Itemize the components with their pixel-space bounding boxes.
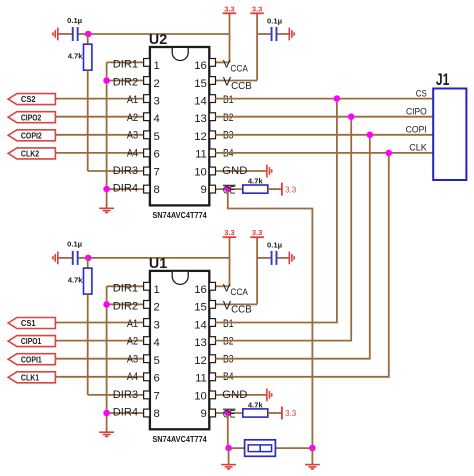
resistor R4 4.7k	[243, 409, 268, 417]
wire CLK2 to A4	[56, 152, 144, 154]
wire to pin 8 DIR4	[107, 412, 144, 414]
svg-text:CIPO1: CIPO1	[21, 336, 42, 346]
svg-text:6: 6	[154, 373, 160, 385]
pin 4 of U2	[144, 113, 150, 121]
ground DIR bus	[99, 432, 114, 436]
svg-text:OE: OE	[223, 409, 235, 421]
svg-text:3.3: 3.3	[224, 228, 234, 237]
wire to pin 2 DIR2	[107, 303, 144, 305]
svg-text:B1: B1	[223, 318, 234, 330]
ground jumper left	[221, 465, 236, 469]
junction bus B4	[386, 150, 393, 157]
junction DIR4	[103, 186, 110, 193]
wire CS1 to A1	[56, 322, 144, 324]
pin 7 of U2	[144, 167, 150, 175]
wire R down to DIR3 row	[87, 70, 89, 171]
svg-text:COPI2: COPI2	[21, 130, 42, 140]
wire U1 B2 up to bus	[215, 117, 351, 341]
supply 3.3V VCCB	[250, 228, 264, 237]
svg-text:4: 4	[154, 337, 160, 349]
wire junction to VCCA rail	[88, 33, 229, 35]
pin 10 of U2	[209, 167, 215, 175]
resistor R1 4.7k	[84, 44, 92, 70]
pin 6 of U2	[144, 149, 150, 157]
capacitor C3 0.1u	[72, 251, 79, 265]
svg-text:A3: A3	[127, 130, 138, 142]
resistor R3 4.7k	[84, 268, 92, 294]
net flag CS2	[8, 94, 55, 105]
capacitor C1 0.1u	[72, 27, 79, 41]
svg-text:9: 9	[201, 408, 207, 420]
wire pin10 GND	[215, 170, 267, 172]
pin 9 of U2	[209, 185, 215, 193]
net flag CLK2	[8, 148, 55, 159]
svg-text:3: 3	[154, 96, 160, 108]
svg-text:CS1: CS1	[21, 318, 36, 328]
svg-text:8: 8	[154, 408, 160, 420]
svg-text:DIR2: DIR2	[113, 300, 138, 312]
junction OE	[225, 186, 232, 193]
supply 3.3V OE pullup	[282, 407, 297, 420]
pin 16 of U2	[209, 59, 215, 67]
svg-text:J1: J1	[436, 70, 450, 89]
svg-text:GND: GND	[222, 389, 247, 401]
wire CIPO2 to A2	[56, 116, 144, 118]
svg-text:1: 1	[154, 60, 160, 72]
svg-text:DIR4: DIR4	[113, 407, 138, 419]
wire to ground left	[228, 448, 230, 465]
wire CS2 to A1	[56, 98, 144, 100]
wire B4 bus to J1	[215, 152, 433, 154]
svg-text:3.3: 3.3	[252, 228, 262, 237]
pin 9 of U1	[209, 409, 215, 417]
wire pin16 VCCA	[215, 285, 229, 287]
pin 7 of U1	[144, 391, 150, 399]
ground right of C2	[289, 28, 294, 41]
wire rail to C right	[257, 33, 271, 35]
wire C to ground	[277, 33, 289, 35]
wire pin10 GND	[215, 394, 267, 396]
jumper SJ1 solder bridge	[245, 440, 276, 457]
svg-text:11: 11	[195, 149, 207, 161]
supply 3.3V VCCA	[223, 228, 237, 237]
svg-text:COPI: COPI	[406, 124, 427, 135]
wire junction to VCCA rail	[88, 257, 229, 259]
svg-text:7: 7	[154, 390, 160, 402]
svg-text:14: 14	[194, 319, 207, 331]
net flag COPI2	[8, 130, 55, 141]
wire COPI1 to A3	[56, 358, 144, 360]
svg-text:5: 5	[154, 131, 160, 143]
pin 15 of U1	[209, 301, 215, 309]
svg-text:4.7k: 4.7k	[248, 400, 264, 409]
net flag CIPO2	[8, 112, 55, 123]
wire U1 B4 up to bus	[215, 153, 388, 377]
junction bus B2	[348, 113, 355, 120]
resistor R2 4.7k	[243, 185, 268, 193]
svg-text:15: 15	[194, 78, 207, 90]
svg-text:CLK: CLK	[409, 142, 427, 153]
junction bus B3	[367, 132, 374, 139]
svg-text:10: 10	[194, 166, 207, 178]
wire junction to R	[87, 34, 89, 44]
wire to pin 8 DIR4	[107, 188, 144, 190]
svg-text:A1: A1	[127, 94, 138, 106]
pin 13 of U2	[209, 113, 215, 121]
pin 12 of U2	[209, 131, 215, 139]
wire DIR bus vertical	[106, 62, 108, 208]
junction DIR2	[103, 301, 110, 308]
svg-text:DIR3: DIR3	[113, 389, 138, 401]
svg-text:DIR4: DIR4	[113, 183, 138, 195]
svg-text:3.3: 3.3	[224, 4, 234, 13]
svg-text:DIR3: DIR3	[113, 165, 138, 177]
svg-text:U2: U2	[149, 32, 167, 48]
pin 3 of U2	[144, 95, 150, 103]
wire to pin 7 DIR3	[88, 170, 144, 172]
IC U2 body (SN74AVC4T774)	[150, 47, 209, 205]
ground DIR bus	[99, 208, 114, 212]
wire CLK1 to A4	[56, 376, 144, 378]
capacitor C2 0.1u	[271, 27, 278, 41]
wire R down to DIR3 row	[87, 294, 89, 395]
pin 10 of U1	[209, 391, 215, 399]
wire U1 B3 up to bus	[215, 135, 369, 359]
wire R to 3.3	[268, 188, 282, 190]
svg-text:13: 13	[194, 337, 207, 349]
IC U1 body (SN74AVC4T774)	[150, 271, 209, 429]
supply 3.3V VCCA	[223, 4, 237, 13]
svg-text:CLK1: CLK1	[21, 372, 39, 382]
pin 6 of U1	[144, 373, 150, 381]
wire pin9 OE to R	[215, 412, 242, 414]
pin 4 of U1	[144, 337, 150, 345]
junction jumper right	[309, 445, 316, 452]
supply 3.3V OE pullup	[282, 183, 297, 196]
svg-text:12: 12	[194, 355, 207, 367]
svg-text:U1: U1	[149, 256, 167, 272]
svg-text:13: 13	[194, 113, 207, 125]
svg-text:CLK2: CLK2	[21, 149, 39, 159]
svg-text:A4: A4	[127, 147, 138, 159]
junction DIR4	[103, 410, 110, 417]
pin 11 of U1	[209, 373, 215, 381]
ground at GND pin	[267, 389, 272, 402]
wire to pin 1 DIR1	[107, 285, 144, 287]
svg-text:CIPO: CIPO	[406, 106, 427, 117]
net flag CS1	[8, 318, 55, 329]
svg-text:DIR2: DIR2	[113, 76, 138, 88]
svg-text:0.1µ: 0.1µ	[267, 17, 282, 26]
pin 5 of U1	[144, 355, 150, 363]
wire pin9 OE to R	[215, 188, 242, 190]
svg-text:9: 9	[201, 184, 207, 196]
svg-text:10: 10	[194, 390, 207, 402]
svg-text:A2: A2	[127, 112, 138, 124]
svg-text:0.1µ: 0.1µ	[67, 240, 82, 249]
wire to pin 1 DIR1	[107, 61, 144, 63]
junction jumper left	[225, 445, 232, 452]
wire to pin 7 DIR3	[88, 394, 144, 396]
svg-text:B2: B2	[223, 336, 234, 348]
wire VCCA rail vertical	[229, 13, 231, 62]
svg-text:4.7k: 4.7k	[248, 176, 264, 185]
svg-text:A4: A4	[127, 371, 138, 383]
svg-text:2: 2	[154, 302, 160, 314]
wire VCCA rail vertical	[229, 237, 231, 286]
pin 12 of U1	[209, 355, 215, 363]
svg-text:B1: B1	[223, 94, 234, 106]
wire rail to C right	[257, 257, 271, 259]
pin label OE (active low)	[223, 409, 236, 421]
wire dot to jumper left	[229, 447, 245, 449]
wire junction to R	[87, 258, 89, 268]
net flag CLK1	[8, 372, 55, 383]
svg-text:3.3: 3.3	[285, 409, 297, 418]
junction cap/resistor	[85, 31, 92, 38]
svg-text:7: 7	[154, 166, 160, 178]
svg-text:4: 4	[154, 113, 160, 125]
svg-text:14: 14	[194, 96, 207, 108]
wire to pin 2 DIR2	[107, 80, 144, 82]
wire VCCB rail vertical	[256, 237, 258, 304]
wire C to junction	[78, 257, 88, 259]
svg-text:SN74AVC4T774: SN74AVC4T774	[152, 211, 207, 220]
svg-text:3: 3	[154, 319, 160, 331]
ground right of C4	[289, 252, 294, 265]
pin 1 of U2	[144, 59, 150, 67]
wire VCCB rail vertical	[256, 13, 258, 80]
svg-text:0.1µ: 0.1µ	[67, 16, 82, 25]
pin 13 of U1	[209, 337, 215, 345]
wire COPI2 to A3	[56, 134, 144, 136]
svg-text:DIR1: DIR1	[113, 59, 138, 71]
wire B1 bus to J1	[215, 98, 433, 100]
wire gnd to C left	[58, 257, 72, 259]
ground at GND pin	[267, 165, 272, 178]
wire B2 bus to J1	[215, 116, 433, 118]
svg-text:B2: B2	[223, 112, 234, 124]
junction OE	[225, 410, 232, 417]
pin 16 of U1	[209, 282, 215, 290]
ground left of C1	[53, 28, 58, 41]
supply 3.3V VCCB	[250, 4, 264, 13]
wire to ground right	[311, 448, 313, 465]
svg-text:SN74AVC4T774: SN74AVC4T774	[152, 435, 207, 444]
junction DIR2	[103, 77, 110, 84]
wire CIPO1 to A2	[56, 340, 144, 342]
wire C to junction	[78, 33, 88, 35]
svg-text:A3: A3	[127, 353, 138, 365]
junction bus B1	[334, 95, 341, 102]
svg-text:8: 8	[154, 184, 160, 196]
ground jumper right	[305, 465, 320, 469]
svg-text:6: 6	[154, 149, 160, 161]
svg-text:COPI1: COPI1	[21, 354, 42, 364]
connector J1	[433, 89, 466, 181]
svg-text:16: 16	[194, 60, 207, 72]
pin 1 of U1	[144, 282, 150, 290]
wire R to 3.3	[268, 412, 282, 414]
pin 2 of U1	[144, 301, 150, 309]
wire pin15 VCCB	[215, 303, 257, 305]
wire DIR bus vertical	[106, 286, 108, 432]
pin 2 of U2	[144, 77, 150, 85]
ground left of C3	[53, 252, 58, 265]
svg-text:2: 2	[154, 78, 160, 90]
pin 3 of U1	[144, 319, 150, 327]
svg-text:A2: A2	[127, 336, 138, 348]
pin 14 of U1	[209, 319, 215, 327]
svg-text:1: 1	[154, 284, 160, 296]
svg-text:15: 15	[194, 302, 207, 314]
pin 8 of U1	[144, 409, 150, 417]
svg-text:OE: OE	[223, 185, 235, 197]
wire pin15 VCCB	[215, 80, 257, 82]
wire U1 B1 up to bus	[215, 99, 337, 323]
pin 8 of U2	[144, 185, 150, 193]
wire C to ground	[277, 257, 289, 259]
svg-text:0.1µ: 0.1µ	[267, 241, 282, 250]
svg-text:CS: CS	[416, 87, 427, 98]
wire pin16 VCCA	[215, 61, 229, 63]
wire U2 OE to jumper	[228, 189, 313, 448]
svg-text:4.7k: 4.7k	[68, 276, 84, 285]
svg-text:5: 5	[154, 355, 160, 367]
wire gnd to C left	[58, 33, 72, 35]
svg-text:4.7k: 4.7k	[68, 52, 84, 61]
capacitor C4 0.1u	[271, 251, 278, 265]
svg-text:CIPO2: CIPO2	[21, 112, 42, 122]
wire jumper right to dot	[275, 447, 312, 449]
pin 5 of U2	[144, 131, 150, 139]
pin 11 of U2	[209, 149, 215, 157]
svg-text:12: 12	[194, 131, 207, 143]
net flag CIPO1	[8, 336, 55, 347]
junction cap/resistor	[85, 255, 92, 262]
svg-text:CS2: CS2	[21, 94, 36, 104]
svg-text:3.3: 3.3	[285, 185, 297, 194]
pin 14 of U2	[209, 95, 215, 103]
svg-text:A1: A1	[127, 318, 138, 330]
wire U1 OE down to jumper	[227, 413, 229, 448]
svg-text:DIR1: DIR1	[113, 283, 138, 295]
net flag COPI1	[8, 354, 55, 365]
svg-text:GND: GND	[222, 165, 247, 177]
svg-text:11: 11	[195, 373, 207, 385]
svg-text:16: 16	[194, 284, 207, 296]
svg-text:3.3: 3.3	[252, 4, 262, 13]
wire B3 bus to J1	[215, 134, 433, 136]
pin label OE (active low)	[223, 185, 236, 197]
pin 15 of U2	[209, 77, 215, 85]
